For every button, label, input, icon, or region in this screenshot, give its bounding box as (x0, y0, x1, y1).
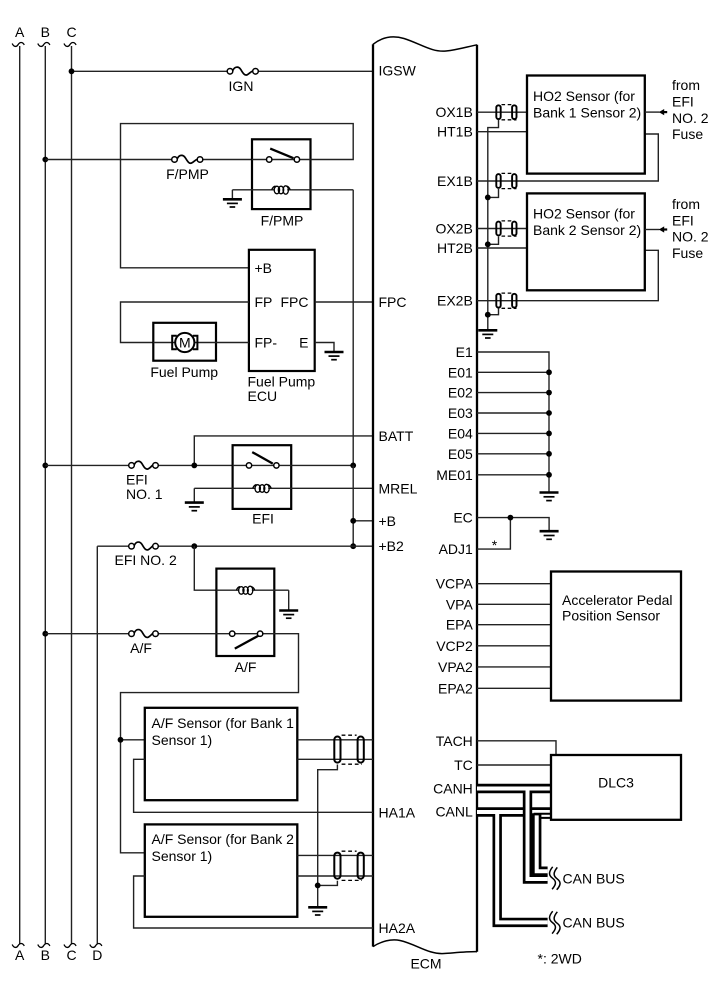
pin label E1 (456, 344, 473, 360)
svg-text:+B: +B (255, 260, 273, 276)
ground for A/F shield drain (308, 907, 327, 915)
junction dot rail B / EFI NO.1 (42, 463, 48, 469)
fuse IGN (227, 67, 258, 75)
label from EFI NO.2 Fuse (sensor 2) (672, 196, 709, 261)
wire rail C (71, 46, 73, 944)
wire rail B (44, 46, 46, 944)
relay F/PMP switch contacts (267, 157, 300, 162)
junction dot heater feed (118, 737, 124, 743)
node A top label (15, 24, 25, 40)
break symbol CAN BUS stub 1 (550, 867, 561, 890)
pin label FP (255, 294, 273, 310)
junction dot drain A2A (315, 883, 321, 889)
pin label +B (255, 260, 273, 276)
wire VCPA (477, 583, 551, 585)
relay A/F switch arm (235, 635, 259, 648)
svg-text:CAN BUS: CAN BUS (563, 870, 625, 886)
relay EFI coil (253, 484, 272, 492)
connector OX1B (496, 105, 516, 120)
relay A/F coil (236, 586, 255, 594)
junction dot rail B / A-F fuse (42, 631, 48, 637)
ground for EFI relay coil (185, 488, 204, 510)
svg-text:EPA: EPA (446, 617, 474, 633)
fuel pump box (153, 323, 216, 361)
wire E to ground (315, 343, 334, 352)
wire E03 (477, 412, 549, 414)
pin label EC (453, 510, 472, 526)
wire rail A (19, 46, 21, 944)
svg-text:HO2 Sensor (for: HO2 Sensor (for (533, 88, 635, 104)
svg-text:E02: E02 (448, 385, 473, 401)
pin label VCPA (436, 576, 474, 592)
svg-text:+B2: +B2 (379, 538, 405, 554)
wire ADJ1 (477, 518, 510, 550)
wire OX1B (477, 111, 527, 113)
svg-text:VCP2: VCP2 (436, 638, 473, 654)
svg-text:E1: E1 (456, 344, 473, 360)
pin label MREL (379, 480, 418, 496)
label 2WD note (538, 950, 582, 966)
wire BATT (194, 436, 373, 466)
junction dot rail B / F-PMP fuse wire (42, 157, 48, 163)
node B bottom label (41, 947, 50, 963)
node A bottom label (15, 947, 25, 963)
pin label VCP2 (436, 638, 473, 654)
pin label CANH (433, 781, 473, 797)
ground for A/F relay coil (279, 590, 298, 618)
svg-text:OX1B: OX1B (435, 104, 472, 120)
node A top break (12, 43, 24, 47)
junction dot ME01 (546, 472, 552, 478)
pin label HA1A (379, 804, 416, 820)
CAN branch V2 from CANH to CAN BUS stub 1 (528, 787, 548, 879)
label HO2 sensor 2 (533, 206, 641, 239)
accelerator pedal position sensor box (551, 572, 681, 701)
pin label EX2B (437, 293, 473, 309)
wire EX2B with loop to HO2 sensor 2 (477, 250, 658, 300)
wire OX2B (477, 228, 527, 230)
relay F/PMP switch arm (270, 149, 293, 159)
ground for EC (540, 531, 559, 539)
wire +B rail down (352, 465, 354, 546)
svg-text:HO2 Sensor (for: HO2 Sensor (for (533, 206, 635, 222)
pin label OX1B (435, 104, 472, 120)
svg-text:EPA2: EPA2 (438, 680, 473, 696)
ground for Fuel Pump ECU E (325, 352, 344, 360)
pin label HT1B (437, 124, 473, 140)
svg-text:A/F Sensor (for Bank 1: A/F Sensor (for Bank 1 (152, 715, 295, 731)
svg-text:Sensor 1): Sensor 1) (152, 848, 213, 864)
CAN bus CANH black (477, 784, 551, 793)
shield drain OX2B connector (488, 237, 499, 245)
node D bottom break (90, 944, 102, 948)
wire from EFI NO.2 fuse to HO2 sensor 2 with arrow (645, 226, 667, 232)
wire HA2A (134, 876, 373, 928)
svg-text:from: from (672, 77, 700, 93)
svg-text:F/PMP: F/PMP (261, 213, 304, 229)
break symbol CAN BUS stub 2 (550, 911, 561, 934)
svg-text:ME01: ME01 (436, 467, 473, 483)
svg-text:HA1A: HA1A (379, 804, 416, 820)
DLC3 box (551, 755, 681, 820)
relay A/F switch wire (229, 633, 291, 635)
pin label ME01 (436, 467, 473, 483)
svg-text:NO. 2: NO. 2 (672, 110, 709, 126)
pin label EPA2 (438, 680, 473, 696)
HO2 sensor 1 box (527, 76, 645, 174)
CAN bus CANH white core (477, 787, 551, 791)
wire E02 (477, 392, 549, 394)
node C bottom label (66, 947, 76, 963)
svg-text:EX1B: EX1B (437, 173, 473, 189)
connector EX1B (496, 173, 516, 188)
svg-text:OX2B: OX2B (435, 221, 472, 237)
svg-text:TACH: TACH (436, 733, 473, 749)
svg-text:D: D (92, 947, 102, 963)
svg-text:E04: E04 (448, 425, 473, 441)
label A/F sensor 1 (152, 715, 295, 748)
node A bottom break (12, 944, 24, 948)
wire EX1B with loop to HO2 sensor 1 (477, 134, 658, 181)
relay F/PMP switch wire (252, 159, 311, 161)
fuse EFI NO.2 (129, 542, 159, 550)
svg-text:B: B (41, 947, 50, 963)
relay EFI switch contacts (246, 463, 279, 468)
node B top break (38, 43, 50, 47)
svg-text:VPA: VPA (446, 596, 474, 612)
CAN branch V1 from CANL to CAN BUS stub 2 (497, 811, 547, 923)
wire EPA (477, 624, 551, 626)
svg-text:NO. 2: NO. 2 (672, 229, 709, 245)
ECM left edge (372, 44, 374, 946)
label relay A/F (235, 659, 257, 675)
wire VPA2 (477, 666, 551, 668)
junction dot drain EX1B (485, 195, 491, 201)
junction dot drain EX2B (485, 312, 491, 318)
svg-text:EFI NO. 2: EFI NO. 2 (115, 552, 177, 568)
svg-text:EX2B: EX2B (437, 293, 473, 309)
label relay F/PMP (261, 213, 304, 229)
pin label +B (379, 513, 397, 529)
shield drain EX1B connector (488, 189, 499, 197)
pin label BATT (379, 428, 414, 444)
label fuse F/PMP (166, 166, 209, 182)
Fuel Pump ECU box (249, 250, 315, 371)
relay F/PMP coil (272, 186, 291, 194)
pin label FPC (379, 294, 407, 310)
svg-text:C: C (66, 24, 76, 40)
svg-text:IGSW: IGSW (379, 62, 417, 78)
wire FP loop to fuel pump (121, 302, 249, 343)
wire VCP2 (477, 645, 551, 647)
junction dot BATT tap (191, 463, 197, 469)
svg-text:Accelerator Pedal: Accelerator Pedal (562, 592, 673, 608)
wire rail D (96, 546, 98, 944)
wire A1A- (297, 758, 373, 760)
relay EFI switch arm (252, 452, 273, 464)
svg-text:E03: E03 (448, 405, 473, 421)
connector A1A twisted pair (334, 735, 364, 764)
ground for F/PMP relay coil (223, 190, 242, 207)
junction dot +B2 (350, 543, 356, 549)
shield drain rail for HO2 connectors (488, 120, 499, 330)
svg-text:Fuel Pump: Fuel Pump (150, 364, 218, 380)
svg-text:A/F: A/F (235, 659, 257, 675)
svg-text:FP-: FP- (255, 335, 278, 351)
relay A/F coil wire (216, 589, 288, 591)
wire EFI NO.2 feed from rail D (97, 545, 373, 547)
shield drain A2A connector (318, 881, 338, 886)
wire +B (353, 520, 373, 522)
HO2 sensor 2 box (527, 193, 645, 290)
label fuse EFI NO.2 (115, 552, 177, 568)
junction dot EFI output / F-PMP coil rail (350, 463, 356, 469)
label IGN (229, 78, 254, 94)
svg-text:Fuse: Fuse (672, 126, 703, 142)
wire E05 (477, 453, 549, 455)
pin label E02 (448, 385, 473, 401)
svg-text:DLC3: DLC3 (598, 774, 634, 790)
wire HA1A (134, 759, 373, 812)
junction dot E03 (546, 410, 552, 416)
pin label E01 (448, 364, 473, 380)
ground for HO2 shield drain (478, 330, 497, 338)
A/F sensor 1 box (145, 708, 297, 800)
svg-text:VCPA: VCPA (436, 576, 474, 592)
motor M fuel pump (172, 333, 197, 352)
wire IGSW from rail C to ECM (72, 70, 374, 72)
svg-text:Bank 2 Sensor 2): Bank 2 Sensor 2) (533, 222, 641, 238)
wire A2A- (297, 875, 373, 877)
svg-text:CAN BUS: CAN BUS (563, 914, 625, 930)
junction dot E05 (546, 451, 552, 457)
fuse EFI NO.1 (129, 461, 159, 469)
junction dot E01 (546, 369, 552, 375)
label accelerator pedal position sensor (562, 592, 673, 624)
svg-text:MREL: MREL (379, 480, 418, 496)
CAN bus CANL black (477, 807, 551, 816)
wire A2A+ (297, 854, 373, 856)
relay F/PMP box (252, 139, 311, 209)
svg-text:HT2B: HT2B (437, 240, 473, 256)
svg-text:E: E (299, 335, 308, 351)
svg-text:NO. 1: NO. 1 (126, 486, 163, 502)
wire E04 (477, 432, 549, 434)
relay EFI box (233, 445, 292, 509)
svg-text:EFI: EFI (252, 511, 274, 527)
svg-text:*: * (492, 537, 498, 553)
wire ME01 (477, 474, 549, 476)
junction dot +B (350, 518, 356, 524)
wire FPC to ECM (315, 301, 373, 303)
ECM bottom wavy edge (373, 940, 477, 954)
svg-text:A: A (15, 24, 25, 40)
relay A/F box (216, 569, 274, 656)
svg-text:CANH: CANH (433, 781, 473, 797)
svg-text:BATT: BATT (379, 428, 414, 444)
shield drain A1A connector (318, 765, 338, 908)
svg-text:Bank 1 Sensor 2): Bank 1 Sensor 2) (533, 105, 641, 121)
wire TACH (477, 741, 556, 755)
node C bottom break (64, 944, 76, 948)
svg-text:Sensor 1): Sensor 1) (152, 732, 213, 748)
pin label VPA (446, 596, 474, 612)
pin label ADJ1 (439, 541, 473, 557)
wire through fuel pump (153, 342, 249, 344)
junction dot EC/ADJ1 (508, 515, 514, 521)
node C top break (64, 43, 76, 47)
svg-text:ADJ1: ADJ1 (439, 541, 473, 557)
svg-text:*: 2WD: *: 2WD (538, 950, 582, 966)
svg-text:B: B (41, 24, 50, 40)
svg-text:FPC: FPC (379, 294, 407, 310)
wire from EFI NO.2 fuse to HO2 sensor 1 with arrow (645, 109, 667, 115)
relay A/F switch contacts (230, 631, 263, 636)
svg-text:EFI: EFI (672, 212, 694, 228)
connector A2A twisted pair (334, 851, 364, 880)
pin label TC (454, 757, 473, 773)
wire TC (477, 764, 551, 766)
pin label OX2B (435, 221, 472, 237)
label CAN BUS 2 (563, 914, 625, 930)
CAN branch V3 from DLC3/CANL to CAN BUS stub 1 (534, 813, 551, 871)
wire EC to ground (477, 518, 549, 531)
pin label EPA (446, 617, 474, 633)
pin label E04 (448, 425, 473, 441)
wire EFI NO.1 feed (45, 464, 232, 466)
pin label FPC (ECU side) (281, 294, 309, 310)
pin label VPA2 (438, 659, 473, 675)
wire EFI relay switch output (291, 464, 353, 466)
pin label +B2 (379, 538, 405, 554)
svg-text:IGN: IGN (229, 78, 254, 94)
svg-text:F/PMP: F/PMP (166, 166, 209, 182)
svg-text:FP: FP (255, 294, 273, 310)
svg-text:M: M (179, 334, 191, 350)
wire A/F relay output to sensor heaters (121, 634, 299, 853)
label from EFI NO.2 Fuse (sensor 1) (672, 77, 709, 142)
A/F sensor 2 box (145, 824, 297, 916)
svg-text:from: from (672, 196, 700, 212)
svg-text:VPA2: VPA2 (438, 659, 473, 675)
wire E01 (477, 371, 549, 373)
svg-text:C: C (66, 947, 76, 963)
wire VPA (477, 603, 551, 605)
svg-text:FPC: FPC (281, 294, 309, 310)
wire F/PMP relay switch output to Fuel Pump ECU +B (121, 124, 354, 268)
label CAN BUS 1 (563, 870, 625, 886)
pin label FP- (255, 335, 278, 351)
label Fuel Pump ECU (248, 374, 316, 405)
connector OX2B (496, 221, 516, 236)
wire F/PMP fuse feed (45, 159, 252, 161)
relay F/PMP coil wire (232, 189, 353, 191)
pin label E03 (448, 405, 473, 421)
label A/F sensor 2 (152, 831, 295, 864)
pin label E (299, 335, 308, 351)
pin label EX1B (437, 173, 473, 189)
ECM top wavy edge (373, 37, 477, 51)
wire A/F fuse feed (45, 633, 229, 635)
junction dot E02 (546, 390, 552, 396)
svg-text:HA2A: HA2A (379, 920, 416, 936)
relay EFI switch wire (233, 464, 292, 466)
label ECM (410, 956, 441, 972)
svg-text:TC: TC (454, 757, 473, 773)
junction dot rail C / IGSW (69, 68, 75, 74)
junction dot EFI NO.2 / A-F coil tap (191, 543, 197, 549)
pin label HA2A (379, 920, 416, 936)
svg-text:CANL: CANL (435, 804, 473, 820)
svg-text:EC: EC (453, 510, 472, 526)
wire EPA2 (477, 687, 551, 689)
fuse A/F (129, 630, 159, 638)
wire HT2B (477, 247, 527, 249)
junction dot drain OX2B (485, 241, 491, 247)
label asterisk 2WD note (492, 537, 498, 553)
wire A1A+ (297, 739, 373, 741)
node B top label (41, 24, 50, 40)
wire A/F relay coil feed (194, 546, 216, 590)
svg-text:E01: E01 (448, 364, 473, 380)
wire F/PMP relay coil to EFI relay output rail (352, 190, 354, 466)
label fuse A/F (130, 640, 152, 656)
relay EFI coil wire (194, 487, 373, 489)
pin label HT2B (437, 240, 473, 256)
pin label TACH (436, 733, 473, 749)
connector EX2B (496, 293, 516, 308)
label fuse EFI NO.1 (126, 472, 163, 503)
pin label CANL (435, 804, 473, 820)
CAN bus CANL white core (477, 810, 551, 814)
wire heater feed branch to A/F sensor 1 (121, 739, 145, 741)
svg-text:EFI: EFI (672, 94, 694, 110)
svg-text:A/F: A/F (130, 640, 152, 656)
svg-text:E05: E05 (448, 446, 473, 462)
svg-text:ECU: ECU (248, 388, 278, 404)
wire E1 (477, 352, 549, 492)
ground for E1 block (540, 493, 559, 501)
node B bottom break (38, 944, 50, 948)
svg-text:Position Sensor: Position Sensor (562, 608, 660, 624)
svg-text:+B: +B (379, 513, 397, 529)
label relay EFI (252, 511, 274, 527)
svg-text:HT1B: HT1B (437, 124, 473, 140)
pin label IGSW (379, 62, 417, 78)
label DLC3 (598, 774, 634, 790)
svg-text:A/F Sensor (for Bank 2: A/F Sensor (for Bank 2 (152, 831, 295, 847)
label Fuel Pump (150, 364, 218, 380)
label HO2 sensor 1 (533, 88, 641, 121)
node D bottom label (92, 947, 102, 963)
shield drain EX2B connector (488, 309, 499, 315)
svg-text:Fuse: Fuse (672, 245, 703, 261)
junction dot E04 (546, 431, 552, 437)
svg-text:A: A (15, 947, 25, 963)
ECM right edge (476, 45, 478, 952)
svg-text:ECM: ECM (410, 956, 441, 972)
node C top label (66, 24, 76, 40)
wire HT1B (477, 131, 527, 133)
fuse F/PMP (172, 155, 203, 163)
pin label E05 (448, 446, 473, 462)
